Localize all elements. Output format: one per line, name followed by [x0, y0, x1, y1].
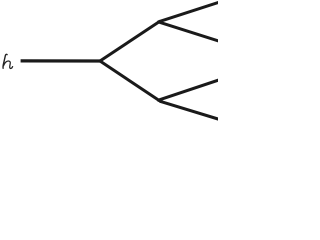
label h [3, 54, 13, 68]
wire: lower branch V0 to V2 [100, 61, 161, 101]
wire: upper branch V0 to V1 [100, 21, 160, 61]
wire: outgoing line 2 [159, 22, 220, 41]
wire: outgoing line 1 (top) [160, 2, 219, 21]
wire: outgoing line 4 (bottom) [161, 101, 220, 119]
wire: outgoing line 3 [158, 80, 219, 100]
wire: incoming higgs propagator [21, 59, 100, 62]
